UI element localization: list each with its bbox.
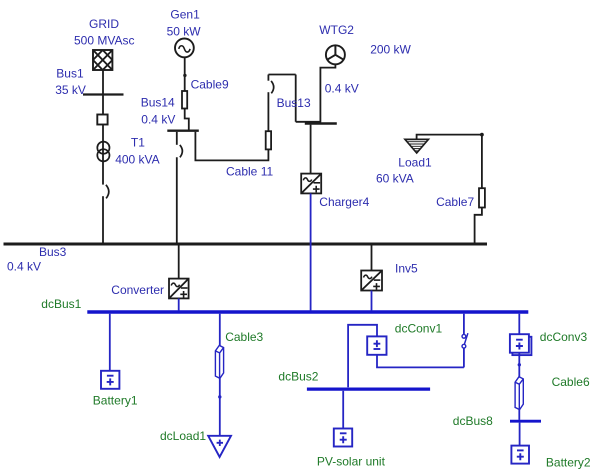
wire top of Cable11 leg (267, 75, 269, 81)
svg-text:Load1: Load1 (398, 156, 432, 170)
bus Bus3 (4, 242, 488, 245)
svg-text:PV-solar unit: PV-solar unit (317, 455, 386, 469)
wire Bus3 to Converter (178, 246, 180, 279)
breaker (square) on Bus1 feeder (97, 115, 107, 125)
wire dcBus1 to Battery1 (109, 314, 111, 371)
wire Load1 to Cable7 top (417, 135, 482, 140)
wire horizontal to Bus13 left leg (268, 74, 295, 76)
svg-text:Inv5: Inv5 (395, 262, 418, 276)
wire Charger4 dc output (crosses Bus3) (310, 193, 312, 310)
svg-text:Cable6: Cable6 (552, 375, 590, 389)
bus Bus14 (167, 130, 199, 132)
fuse arc on Cable 11 leg (271, 81, 274, 93)
bus dcBus2 (307, 387, 430, 390)
wire Cable3 to dcLoad1 (219, 378, 221, 436)
svg-text:Bus13: Bus13 (277, 96, 311, 110)
svg-text:Converter: Converter (111, 283, 164, 297)
cable Cable3 (3d rod) (215, 345, 223, 378)
converter dcConv1 (367, 336, 386, 354)
transformer T1 (97, 142, 109, 162)
wire Cable7 to Bus3 (475, 208, 482, 243)
fuse/breaker arc on T1 leg (106, 185, 109, 199)
Bus13 left leg (295, 75, 297, 122)
svg-text:Cable7: Cable7 (436, 195, 474, 209)
converter dcConv3 (double box) (510, 334, 532, 355)
cable Cable9 (182, 91, 187, 109)
wire Bus14 right leg + Cable 11 bottom wire (195, 132, 268, 161)
wire dcConv3 to Cable6 (518, 353, 520, 377)
wire down to Cable7 (481, 135, 483, 189)
bus Bus13 (305, 122, 337, 125)
converter Inv5 (361, 271, 382, 291)
wire dcConv1 top to dcBus2 (348, 325, 377, 388)
svg-text:0.4 kV: 0.4 kV (7, 259, 41, 273)
wire Bus14 leg to Bus3 (176, 157, 178, 242)
PV-solar unit (334, 429, 352, 447)
wire above Cable 11 (267, 92, 269, 131)
svg-text:GRID: GRID (89, 17, 119, 31)
junction dot (218, 395, 221, 398)
svg-text:0.4 kV: 0.4 kV (325, 81, 359, 95)
generator Gen1 (175, 39, 194, 58)
svg-text:Bus3: Bus3 (39, 245, 67, 259)
battery Battery1 (101, 371, 119, 389)
fuse arc on Bus14 leg (180, 145, 183, 157)
wire Converter dc output (178, 298, 180, 310)
junction dot (480, 133, 484, 137)
cable Cable 11 (266, 131, 271, 149)
bus Bus1 (83, 93, 124, 95)
svg-text:WTG2: WTG2 (319, 23, 354, 37)
wire dcBus1 to dcConv3 (518, 314, 520, 335)
wire Bus13 to Charger4 (310, 125, 312, 174)
svg-text:Cable9: Cable9 (191, 78, 229, 92)
wire switch to dcConv1 bottom (377, 355, 464, 368)
wire to Bus3 (102, 196, 104, 242)
svg-text:Battery2: Battery2 (546, 456, 591, 470)
wire Cable6 to dcBus8 (518, 410, 520, 420)
wire dcBus2 to PV (342, 391, 344, 429)
converter Charger4 (301, 174, 321, 194)
battery Battery2 (511, 446, 529, 464)
svg-text:dcConv1: dcConv1 (395, 322, 443, 336)
svg-text:Cable3: Cable3 (225, 330, 263, 344)
switch on dcConv1 leg from dcBus1 (463, 314, 465, 335)
cable Cable7 (479, 188, 485, 207)
svg-text:Charger4: Charger4 (319, 195, 369, 209)
wire Bus3 to Inv5 (371, 246, 373, 271)
wire GRID to breaker (102, 70, 104, 115)
Bus14 left leg upper (176, 132, 178, 145)
external grid GRID (93, 50, 112, 70)
wire WTG2 to Bus13 (320, 64, 335, 122)
bus dcBus1 (87, 310, 528, 313)
svg-text:dcLoad1: dcLoad1 (160, 429, 206, 443)
svg-text:dcBus8: dcBus8 (453, 414, 493, 428)
junction dot (183, 74, 186, 77)
cable Cable6 (3d rod) (515, 377, 523, 410)
wire Inv5 dc output (371, 291, 373, 311)
svg-text:200 kW: 200 kW (370, 42, 411, 56)
wire Cable9 to Bus14 (185, 109, 189, 131)
svg-text:500 MVAsc: 500 MVAsc (74, 33, 134, 47)
svg-text:Gen1: Gen1 (170, 8, 200, 22)
svg-text:dcBus1: dcBus1 (41, 297, 81, 311)
junction dot (518, 363, 521, 366)
stub wire at Bus13 (296, 121, 321, 123)
svg-text:T1: T1 (131, 136, 145, 150)
svg-text:dcConv3: dcConv3 (540, 330, 588, 344)
svg-text:35 kV: 35 kV (55, 83, 86, 97)
svg-text:Cable 11: Cable 11 (226, 164, 273, 178)
wire dcBus1 to Cable3 (219, 314, 221, 346)
svg-text:Battery1: Battery1 (93, 394, 138, 408)
svg-text:Bus1: Bus1 (56, 67, 84, 81)
svg-text:60 kVA: 60 kVA (376, 171, 414, 185)
wire Gen1 to Cable9 (184, 57, 186, 91)
wire dcBus8 to Battery2 (519, 423, 521, 446)
svg-text:dcBus2: dcBus2 (278, 370, 318, 384)
wire breaker through T1 (102, 125, 104, 185)
svg-text:400 kVA: 400 kVA (115, 152, 159, 166)
load dcLoad1 (triangle) (208, 436, 231, 457)
converter Converter (169, 279, 189, 299)
load Load1 (hatched triangle) (405, 139, 428, 153)
svg-text:50 kW: 50 kW (167, 24, 202, 38)
bus dcBus8 (510, 420, 541, 423)
svg-text:0.4 kV: 0.4 kV (141, 112, 175, 126)
svg-text:Bus14: Bus14 (141, 96, 175, 110)
wind turbine WTG2 (326, 45, 345, 64)
